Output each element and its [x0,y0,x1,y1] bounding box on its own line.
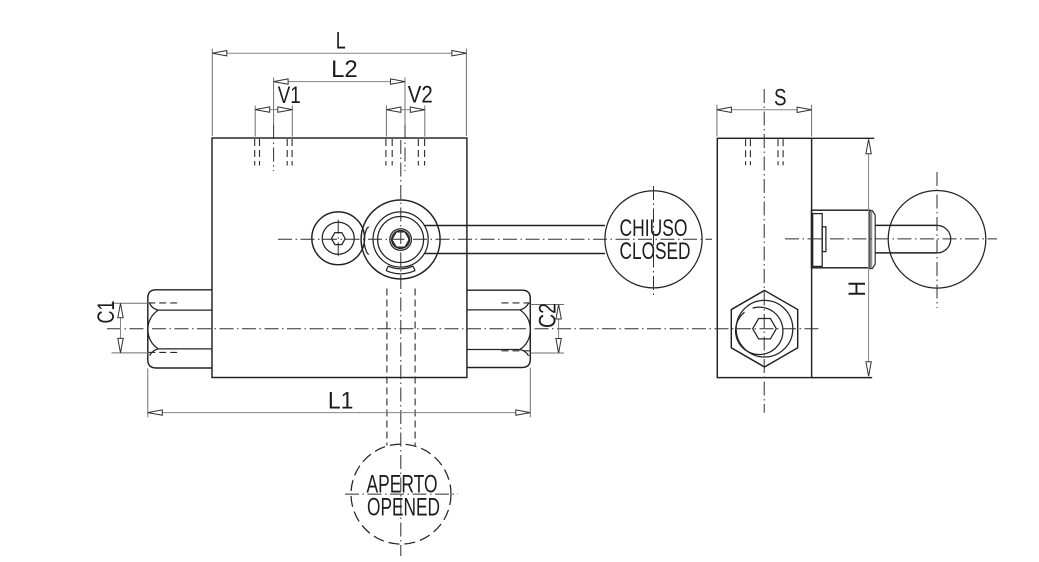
stem boss end cap [870,211,875,269]
handle knob circle CHIUSO [605,191,702,288]
dimension C2 line [558,305,560,354]
valve stem outer circle [361,200,440,279]
svg-text:L2: L2 [331,56,358,83]
SECTION: dimensions [93,27,871,417]
svg-text:CLOSED: CLOSED [620,238,691,265]
stem boss circle [390,229,412,251]
valve body (side view) [717,138,811,377]
svg-text:OPENED: OPENED [367,494,440,522]
valve vertical centerline through APERTO [400,140,402,556]
dimension V2 extension lines [386,106,424,137]
svg-text:S: S [774,84,787,111]
stem ring inner [378,217,424,263]
right fitting thread hidden lines [502,303,530,351]
lever travel slot arcs [386,266,415,274]
bottom plug thread arc [736,307,783,354]
dimension C1 arrows [118,303,123,318]
handle rod (side view) [875,225,937,253]
handle lever (closed position) [425,226,605,254]
svg-text:V2: V2 [408,82,433,109]
stem boss inner flange [813,214,823,267]
dimension S line [717,109,812,111]
stem ring outer [373,212,428,267]
left hex end fitting [148,290,212,368]
svg-text:H: H [844,281,871,297]
side port thread hidden lines (top) [746,139,784,165]
dimension L2 arrows [274,79,289,84]
svg-text:V1: V1 [278,82,301,109]
dimension C2 extension lines [531,305,565,354]
svg-text:C2: C2 [535,303,562,328]
dimension C1 extension lines [112,303,150,353]
dimension L2 line [274,81,405,83]
H extension of body bottom edge [812,377,873,379]
pilot plug (small circle) outer [312,212,365,265]
dimension H arrows [866,139,871,154]
dimension L1 arrows [148,410,163,415]
CHIUSO knob vertical centerline [653,186,655,296]
port V2 thread hidden lines (top) [386,139,425,166]
right fitting hex barrel arc [520,310,530,350]
pilot plug inner circle [322,222,354,254]
port V1 centerline [273,125,275,171]
handle lever (opened position, hidden) [387,289,415,446]
dimension V2 line [386,109,424,111]
stem boss cap inner line [871,212,873,268]
APERTO knob horizontal centerline [345,493,458,495]
svg-text:C1: C1 [93,301,120,324]
bottom plug hex socket [753,319,777,339]
dimension V1 arrows [255,107,270,112]
right hex end fitting [467,290,530,367]
pilot plug vertical centerline [337,220,339,257]
stem boss notch [822,227,826,252]
dimension H line [868,139,870,376]
svg-text:L1: L1 [328,387,354,414]
SECTION: side view [717,138,986,377]
valve body (front view) [212,138,467,378]
port V2 centerline [404,125,406,171]
pilot plug hex socket [331,233,345,245]
dimension C1 line [120,303,122,353]
side view vertical centerline [763,89,765,413]
dimension L2 extension lines [274,78,405,126]
dimension L line [212,52,466,54]
dimension L extension lines [212,49,466,136]
ports axis centerline through fittings and bottom plug [107,328,818,330]
bottom plug outer circle [736,300,793,357]
handle rod rounded end [937,225,951,253]
dimension S arrows [717,107,732,112]
valve axis centerline (horizontal) [278,238,712,240]
left fitting thread hidden lines [148,303,177,353]
dimension V2 arrows [386,107,401,112]
dimension L1 line [148,412,531,414]
SECTION: front view [148,138,702,544]
lever washer crescent [364,227,368,255]
dimension V1 line [255,109,292,111]
dimension V1 extension lines [255,106,292,137]
side knob horizontal centerline [785,238,997,240]
stem boss (side view) [812,210,871,268]
opened position knob circle APERTO (dashed) [351,444,451,544]
dimension L arrows [212,51,227,56]
right fitting corner chamfer arcs [520,303,529,356]
stem hex socket [392,232,410,247]
stem inner circle [392,231,410,249]
H extension of body top edge [812,137,875,139]
dimension C2 arrows [556,305,561,320]
dimension L1 extension lines [148,368,531,418]
handle knob circle (side view) [888,191,986,289]
left fitting hex barrel arc [148,310,158,349]
right fitting hex flats [467,310,520,350]
SECTION: centerlines [107,89,997,556]
left fitting hex flats [158,310,212,349]
left fitting corner chamfer arcs [150,303,159,355]
bottom plug hex (side view) [731,290,797,367]
svg-text:L: L [336,27,346,54]
port V1 thread hidden lines (top) [255,139,292,166]
side knob vertical centerline [936,172,938,308]
dimension S extension lines [717,105,812,137]
